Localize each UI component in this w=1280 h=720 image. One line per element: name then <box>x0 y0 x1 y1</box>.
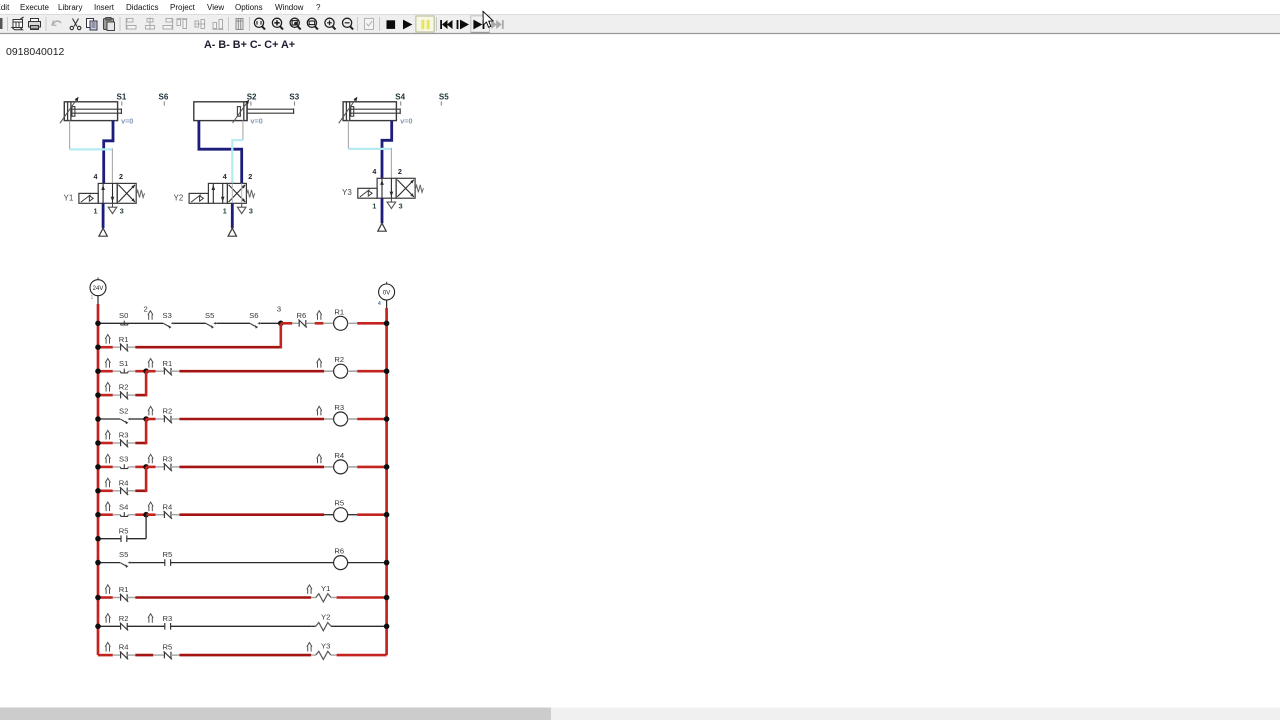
wire riser <box>145 515 147 539</box>
relay contact R5 <box>121 535 127 542</box>
toolbar simulate-to-end button (disabled) <box>491 20 503 29</box>
junction left rail <box>95 392 101 398</box>
relay contact R2 (closed) <box>164 415 172 423</box>
wire (live) <box>357 370 386 373</box>
toolbar align-top icon <box>177 19 188 29</box>
self-hold rung wire <box>98 394 113 397</box>
toolbar icon print <box>29 19 41 30</box>
wire cylinder B rod side (vented) <box>242 121 244 141</box>
junction left rail <box>95 536 101 542</box>
actuation arrow S4 <box>105 502 110 511</box>
svg-text:4: 4 <box>378 301 381 307</box>
svg-text:R3: R3 <box>334 403 344 412</box>
relay contact R5 <box>164 651 172 659</box>
svg-text:Y3: Y3 <box>321 641 330 650</box>
switch S1 <box>120 369 128 373</box>
toolbar align-right icon <box>163 18 173 30</box>
self-hold rung wire <box>98 489 113 492</box>
svg-text:Library: Library <box>58 3 82 12</box>
svg-text:R2: R2 <box>163 407 173 416</box>
actuation arrow R3 <box>105 430 110 439</box>
svg-text:24V: 24V <box>93 286 104 292</box>
horizontal scrollbar <box>0 708 1280 720</box>
wire to valve A port 2 <box>111 148 113 183</box>
svg-text:A- B- B+ C- C+ A+: A- B- B+ C- C+ A+ <box>204 39 295 51</box>
toolbar align-middle icon <box>195 20 206 29</box>
toolbar zoom-out icon <box>343 18 354 29</box>
cylinder C <box>343 102 396 121</box>
node junction <box>143 416 149 422</box>
actuation arrow R2 <box>105 383 110 392</box>
relay contact R2 <box>120 391 128 399</box>
svg-text:1: 1 <box>91 295 94 301</box>
toolbar pause button (active) <box>416 16 434 32</box>
svg-text:Insert: Insert <box>94 3 115 12</box>
switch S2 <box>121 418 131 425</box>
wire <box>135 346 280 349</box>
junction right rail <box>384 368 390 374</box>
svg-text:S0: S0 <box>119 311 128 320</box>
wire (live) <box>315 322 324 325</box>
cylinder A (1A1) <box>64 102 117 121</box>
toolbar icon copy <box>87 19 98 31</box>
wire (live) <box>357 418 386 421</box>
svg-text:v=0: v=0 <box>251 117 263 126</box>
svg-text:3: 3 <box>120 207 124 216</box>
svg-text:1: 1 <box>94 207 98 216</box>
rung wire from rail <box>98 370 113 373</box>
svg-text:0V: 0V <box>383 290 390 296</box>
wire cylinder C rod side to valve port 4 (pressurized) <box>382 121 392 179</box>
svg-text:R4: R4 <box>119 478 129 487</box>
svg-text:Y3: Y3 <box>342 188 352 197</box>
toolbar stop button <box>387 20 396 29</box>
mouse cursor <box>483 11 493 27</box>
junction right rail rung6 <box>384 560 390 566</box>
wire (live) <box>337 654 387 657</box>
wire riser <box>145 371 148 396</box>
svg-text:S2: S2 <box>119 407 128 416</box>
wire <box>260 322 281 324</box>
rung 1 wire (dead, black) <box>98 322 163 324</box>
valve solenoid Y1 <box>316 594 331 602</box>
wire valve C port1 to supply <box>381 198 384 223</box>
right rail 0V (red) <box>385 308 388 655</box>
wire valve A port1 to supply <box>102 203 105 228</box>
toolbar icon paste <box>104 18 115 31</box>
junction left rail <box>95 488 101 494</box>
switch S3 <box>120 464 128 468</box>
node 3 <box>278 321 284 327</box>
actuation arrow R4 <box>105 643 110 652</box>
svg-text:Options: Options <box>235 3 263 12</box>
svg-text:Edit: Edit <box>0 3 10 12</box>
relay coil R5 <box>334 508 348 522</box>
relay contact R3 (closed) <box>164 463 172 471</box>
valve solenoid Y3 <box>316 651 331 659</box>
svg-text:v=0: v=0 <box>400 117 412 126</box>
rung wire from rail <box>98 466 113 469</box>
toolbar align-left icon <box>126 18 136 30</box>
valve Y1 (4/2 way, solenoid actuated) <box>98 183 117 203</box>
svg-text:S5: S5 <box>205 311 214 320</box>
limit switch S5 (open) <box>121 561 131 568</box>
svg-text:S3: S3 <box>289 92 299 101</box>
rung wire from rail (dead) <box>98 625 121 627</box>
actuation arrow R1 <box>105 335 110 344</box>
svg-text:Y1: Y1 <box>321 584 330 593</box>
svg-text:R5: R5 <box>119 526 129 535</box>
left rail 24V (red) <box>97 304 100 655</box>
relay coil R2 <box>334 364 348 378</box>
actuation arrow Y1 <box>307 585 312 594</box>
rung 6 wire (dead) <box>98 562 120 564</box>
svg-text:R1: R1 <box>163 359 173 368</box>
junction left rail <box>95 344 101 350</box>
svg-text:R5: R5 <box>163 550 173 559</box>
wire vented segment cyan C <box>348 148 391 150</box>
svg-text:R5: R5 <box>163 643 173 652</box>
wire <box>216 322 250 324</box>
wire cylinder C piston side (vented) <box>347 121 349 149</box>
svg-text:S5: S5 <box>439 92 449 101</box>
wire <box>135 442 146 445</box>
relay contact R5 (open) <box>165 559 171 566</box>
toolbar align-bottom icon <box>213 20 224 30</box>
toolbar align-center icon <box>146 18 155 31</box>
svg-text:4: 4 <box>94 172 98 181</box>
wire cylinder A piston side (vented) <box>69 121 71 150</box>
self-hold rung wire <box>98 442 113 445</box>
limit switch S5 (open) <box>206 322 216 329</box>
svg-text:S1: S1 <box>117 92 127 101</box>
toolbar background <box>0 14 1280 34</box>
wire (live) <box>337 596 387 599</box>
node junction <box>143 464 149 470</box>
relay contact R2 <box>120 623 128 631</box>
svg-text:S4: S4 <box>119 502 128 511</box>
svg-text:R1: R1 <box>119 585 129 594</box>
relay coil R3 <box>334 412 348 426</box>
toolbar partial icon left edge <box>0 18 3 29</box>
toolbar zoom-in icon <box>325 18 336 29</box>
svg-text:v=0: v=0 <box>121 116 133 125</box>
relay contact R4 (closed) <box>164 511 172 519</box>
compressed air supply B <box>228 228 236 236</box>
relay contact R3 <box>120 439 128 447</box>
actuation arrow R4 <box>148 502 153 511</box>
actuation arrow coil R4 <box>317 454 322 463</box>
junction left rail <box>95 368 101 374</box>
actuation arrow R3 <box>148 454 153 463</box>
actuation arrow Y3 <box>307 643 312 652</box>
svg-text:R3: R3 <box>163 455 173 464</box>
svg-text:Window: Window <box>275 3 304 12</box>
node junction <box>143 512 149 518</box>
relay contact R1 <box>120 594 128 602</box>
relay contact R6 (closed) <box>298 320 306 328</box>
valve Y3 (4/2 way, solenoid actuated) <box>377 178 396 198</box>
junction left rail <box>95 440 101 446</box>
junction left rail <box>95 512 101 518</box>
svg-text:R1: R1 <box>119 335 129 344</box>
svg-text:R4: R4 <box>163 502 173 511</box>
junction left rail <box>95 416 101 422</box>
cylinder B (extended) <box>194 102 247 121</box>
wire riser <box>145 419 148 444</box>
pushbutton S0 (closed) <box>120 321 128 325</box>
rung wire from rail (dead) <box>98 418 120 420</box>
valve solenoid Y2 <box>316 623 331 631</box>
toolbar zoom-detail icon <box>290 18 301 29</box>
self-hold rung wire <box>98 538 121 540</box>
wire (live) <box>281 322 293 325</box>
junction right rail <box>384 595 390 601</box>
svg-text:R3: R3 <box>119 431 129 440</box>
wire <box>135 394 146 397</box>
junction left rail <box>95 464 101 470</box>
junction left rail rung1 <box>95 321 101 327</box>
svg-text:2: 2 <box>144 305 148 314</box>
svg-text:R5: R5 <box>334 499 344 508</box>
relay coil R4 <box>334 460 348 474</box>
svg-text:S3: S3 <box>119 455 128 464</box>
wire cylinder A rod side to valve port 4 (pressurized) <box>104 121 113 184</box>
svg-text:?: ? <box>316 3 321 12</box>
wire (live) <box>357 513 386 516</box>
svg-text:3: 3 <box>399 202 403 211</box>
svg-text:R1: R1 <box>334 307 344 316</box>
compressed air supply C <box>378 223 386 231</box>
wire vented segment cyan A <box>70 148 113 150</box>
svg-text:R6: R6 <box>297 311 307 320</box>
toolbar icon undo (disabled) <box>52 21 61 26</box>
node junction <box>143 368 149 374</box>
actuation arrow coil R2 <box>317 359 322 368</box>
actuation arrow R4 <box>105 478 110 487</box>
wire (live) <box>179 418 324 421</box>
junction right rail <box>384 464 390 470</box>
wire riser <box>279 323 282 348</box>
svg-text:R2: R2 <box>119 614 129 623</box>
junction right rail rung1 <box>384 321 390 327</box>
junction right rail <box>384 512 390 518</box>
wire riser <box>145 467 148 492</box>
actuation arrow S3 <box>105 454 110 463</box>
svg-text:S1: S1 <box>119 359 128 368</box>
svg-text:R3: R3 <box>163 614 173 623</box>
svg-text:S5: S5 <box>119 550 128 559</box>
actuation arrow S3 <box>148 311 153 320</box>
valve Y2 (4/2 way, spring position) <box>208 183 227 203</box>
actuation arrow R1 coil <box>317 311 322 320</box>
wire (live) <box>357 322 386 325</box>
svg-text:4: 4 <box>372 167 376 176</box>
junction right rail <box>384 624 390 630</box>
svg-text:View: View <box>207 3 224 12</box>
toolbar zoom 1:1 icon <box>254 18 265 29</box>
svg-text:R2: R2 <box>334 355 344 364</box>
svg-text:3: 3 <box>277 305 281 314</box>
actuation arrow R1 <box>105 585 110 594</box>
junction left rail <box>95 624 101 630</box>
svg-text:1: 1 <box>223 207 227 216</box>
relay contact R3 <box>165 623 171 630</box>
switch S4 <box>120 512 128 516</box>
actuation arrow R2 <box>105 614 110 623</box>
relay contact R1 <box>120 343 128 351</box>
self-hold rung wire <box>98 346 113 349</box>
svg-text:Project: Project <box>170 3 196 12</box>
compressed air supply A <box>99 228 107 236</box>
toolbar grid icon <box>236 19 243 30</box>
limit switch S6 (open) <box>250 322 260 329</box>
toolbar zoom-fit icon <box>272 18 283 29</box>
svg-text:R4: R4 <box>119 643 129 652</box>
actuation arrow S1 <box>105 359 110 368</box>
wire <box>135 489 146 492</box>
svg-text:R2: R2 <box>119 383 129 392</box>
svg-text:Execute: Execute <box>20 3 49 12</box>
toolbar zoom-frame icon <box>307 18 318 29</box>
limit switch S3 (open) <box>164 322 174 329</box>
toolbar reset button <box>440 20 452 29</box>
junction right rail <box>384 416 390 422</box>
toolbar simulate-until button (hovered) <box>471 16 490 32</box>
svg-text:R6: R6 <box>334 547 344 556</box>
rung wire from rail <box>98 513 113 516</box>
wire (live) <box>357 466 386 469</box>
wire (live) <box>179 370 324 373</box>
svg-text:S2: S2 <box>247 92 257 101</box>
wire valve B port1 to supply <box>231 203 234 228</box>
relay coil R1 <box>334 316 348 330</box>
rung wire from rail <box>98 654 113 657</box>
actuation arrow R1 <box>148 359 153 368</box>
wire vented segment cyan B <box>232 140 243 183</box>
toolbar icon new window <box>12 17 24 30</box>
svg-text:S3: S3 <box>163 311 172 320</box>
svg-text:S4: S4 <box>395 92 405 101</box>
toolbar single-step button <box>457 20 469 30</box>
svg-text:Y1: Y1 <box>64 193 74 202</box>
svg-text:S6: S6 <box>249 311 258 320</box>
relay coil R6 <box>334 556 348 570</box>
wire (live) <box>179 466 324 469</box>
svg-text:1: 1 <box>372 202 376 211</box>
svg-text:2: 2 <box>248 172 252 181</box>
relay contact R4 <box>120 487 128 495</box>
relay contact R1 (closed) <box>164 367 172 375</box>
svg-text:0918040012: 0918040012 <box>6 46 65 58</box>
svg-text:R4: R4 <box>334 451 344 460</box>
junction left rail rung6 <box>95 560 101 566</box>
junction left rail <box>95 595 101 601</box>
svg-text:2: 2 <box>398 167 402 176</box>
svg-text:2: 2 <box>119 172 123 181</box>
svg-text:3: 3 <box>249 207 253 216</box>
svg-text:S6: S6 <box>159 92 169 101</box>
actuation arrow R2 <box>148 406 153 415</box>
toolbar icon cut <box>70 19 81 30</box>
0V supply <box>386 282 388 284</box>
relay contact R4 <box>120 651 128 659</box>
wire <box>174 322 206 324</box>
toolbar start button <box>403 20 412 30</box>
svg-text:Didactics: Didactics <box>126 3 158 12</box>
toolbar check-drawing icon (disabled) <box>365 19 374 30</box>
24V supply <box>97 278 99 280</box>
menu bar <box>0 0 1280 14</box>
actuation arrow coil R3 <box>317 406 322 415</box>
svg-text:4: 4 <box>223 172 227 181</box>
wire cylinder B piston side to valve port 2 (pressurized) <box>199 121 242 184</box>
actuation arrow R3 <box>148 614 153 623</box>
svg-text:Y2: Y2 <box>321 613 330 622</box>
rung wire from rail <box>98 596 113 599</box>
wire (live) <box>179 513 324 516</box>
svg-text:Y2: Y2 <box>174 193 184 202</box>
wire to valve C port 2 <box>390 148 392 178</box>
